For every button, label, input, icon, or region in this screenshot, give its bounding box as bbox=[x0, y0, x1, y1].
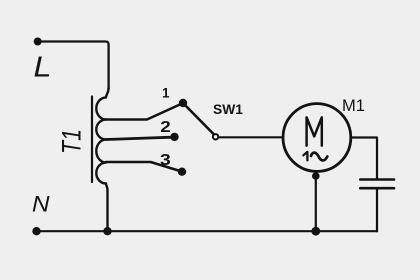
motor M1 body bbox=[283, 104, 351, 172]
node tap 1 bbox=[179, 99, 187, 107]
switch SW1 blade bbox=[184, 104, 214, 135]
wire motor bottom bbox=[315, 172, 317, 232]
svg-text:L: L bbox=[34, 52, 52, 84]
motor M letter bbox=[307, 117, 322, 145]
junction rail transformer bbox=[103, 227, 111, 235]
wire tap 1 bbox=[106, 104, 181, 120]
capacitor plate top bbox=[360, 178, 394, 181]
wire L to transformer top bbox=[38, 42, 109, 90]
motor 1 digit bbox=[303, 152, 307, 161]
node L terminal bbox=[34, 38, 42, 46]
svg-text:3: 3 bbox=[160, 152, 171, 169]
svg-text:N: N bbox=[32, 191, 50, 216]
wire tap 2 bbox=[106, 137, 172, 139]
svg-text:1: 1 bbox=[162, 86, 170, 101]
transformer T1 winding bbox=[96, 88, 108, 231]
node tap 3 bbox=[178, 168, 186, 176]
svg-text:T1: T1 bbox=[57, 129, 87, 154]
wire capacitor to rail bbox=[376, 189, 378, 231]
wire N rail bbox=[37, 230, 378, 232]
wire switch to motor bbox=[219, 136, 283, 138]
wire tap 3 bbox=[106, 162, 180, 171]
svg-text:2: 2 bbox=[160, 119, 171, 136]
node tap 2 bbox=[170, 133, 178, 141]
capacitor plate bottom bbox=[360, 187, 394, 190]
junction motor bottom bbox=[312, 172, 320, 180]
wire motor to capacitor bbox=[351, 138, 377, 179]
node N terminal bbox=[32, 227, 40, 235]
svg-text:SW1: SW1 bbox=[213, 102, 243, 117]
switch SW1 pole bbox=[213, 134, 218, 139]
transformer T1 core bbox=[91, 97, 93, 183]
motor sine symbol bbox=[311, 153, 327, 161]
svg-text:M1: M1 bbox=[342, 97, 365, 115]
junction rail motor bbox=[311, 227, 320, 236]
